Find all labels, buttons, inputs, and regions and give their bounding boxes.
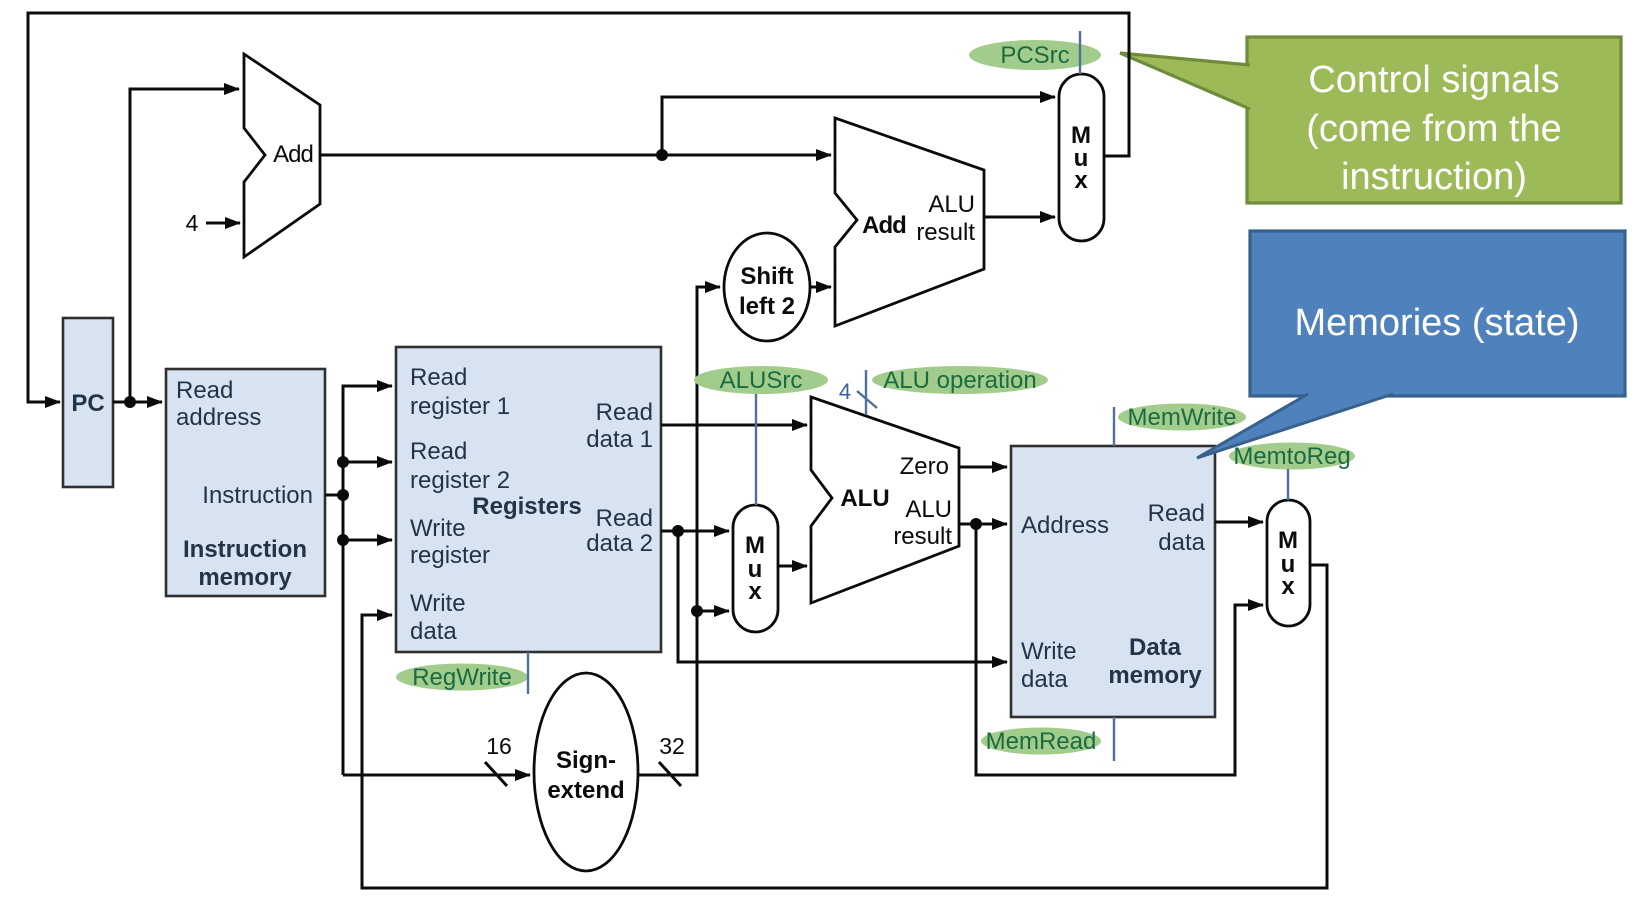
svg-text:x: x: [748, 578, 762, 605]
svg-text:4: 4: [839, 379, 851, 404]
svg-text:Data: Data: [1129, 634, 1182, 661]
svg-text:MemWrite: MemWrite: [1128, 404, 1237, 431]
svg-text:left 2: left 2: [739, 293, 795, 320]
wire: read data 2 down to data memory write data: [678, 531, 1007, 662]
control line ALUSrc to mux: [755, 394, 757, 505]
svg-text:Read: Read: [1148, 500, 1205, 527]
svg-text:Memories (state): Memories (state): [1294, 302, 1579, 344]
wire: instruction low 16 bits to sign extend: [343, 774, 530, 777]
node: PC output junction: [124, 396, 136, 408]
mux MemtoReg: [1267, 500, 1310, 626]
adder Add (branch target): [835, 118, 984, 326]
data memory box: [1011, 446, 1215, 717]
control line RegWrite: [527, 652, 529, 694]
node: ALU result junction: [970, 518, 982, 530]
svg-text:RegWrite: RegWrite: [412, 664, 512, 691]
wire: instruction to read register 2: [343, 461, 392, 464]
adder Add (PC+4): [244, 54, 320, 257]
svg-text:MemRead: MemRead: [986, 728, 1097, 755]
wire: sign extended value to ALUSrc mux input 1: [697, 610, 729, 613]
registers box: [396, 347, 661, 652]
svg-text:data: data: [1021, 666, 1068, 693]
svg-text:register 1: register 1: [410, 393, 510, 420]
svg-text:ALU: ALU: [905, 496, 952, 523]
svg-text:Add: Add: [862, 212, 906, 239]
svg-text:ALU operation: ALU operation: [883, 367, 1036, 394]
svg-text:memory: memory: [1108, 662, 1202, 689]
svg-text:M: M: [1278, 527, 1298, 554]
svg-text:ALU: ALU: [840, 485, 889, 512]
ALU U1: [811, 397, 959, 603]
mux ALUSrc: [733, 505, 778, 632]
svg-text:Write: Write: [410, 590, 466, 617]
svg-text:32: 32: [659, 733, 685, 759]
svg-text:result: result: [893, 523, 952, 550]
control label MemWrite: [1118, 404, 1246, 431]
wire: ALU zero to data memory: [959, 466, 1007, 469]
control label PCSrc: [969, 40, 1101, 70]
wire: PC up to Add input: [130, 89, 239, 402]
control label MemRead: [981, 728, 1101, 755]
svg-text:Read: Read: [410, 364, 467, 391]
wire: branch Add result to PCSrc mux input 1: [984, 216, 1055, 219]
svg-text:Instruction: Instruction: [202, 482, 313, 509]
svg-text:data 2: data 2: [586, 530, 653, 557]
instruction memory box: [166, 369, 325, 596]
wire: read data 1 to ALU: [661, 424, 807, 427]
wire: PC+4 up to PCSrc mux input 0: [662, 97, 1055, 155]
svg-text:Shift: Shift: [740, 263, 793, 290]
bus slash 16: [485, 762, 507, 786]
control label RegWrite: [396, 664, 528, 691]
svg-text:address: address: [176, 404, 261, 431]
control label ALU operation: [872, 366, 1048, 394]
wire: shift left 2 output to branch Add: [810, 286, 831, 289]
svg-text:PCSrc: PCSrc: [1000, 42, 1069, 69]
control line PCSrc to mux: [1079, 31, 1081, 74]
wire: sign extend output up to shift left 2: [638, 287, 720, 775]
svg-text:Write: Write: [410, 515, 466, 542]
svg-text:data: data: [410, 618, 457, 645]
svg-text:instruction): instruction): [1341, 156, 1527, 198]
node: instruction junctions: [337, 456, 349, 468]
svg-text:extend: extend: [547, 777, 624, 804]
node: sign extended junction: [691, 605, 703, 617]
wire: ALU result around data memory to MemtoReg mux input 1: [976, 524, 1263, 775]
wire: read data 2 to ALUSrc mux input 0: [661, 530, 729, 533]
svg-text:Add: Add: [273, 141, 313, 168]
svg-text:data 1: data 1: [586, 426, 653, 453]
svg-text:Control signals: Control signals: [1308, 59, 1559, 101]
control line ALU operation to ALU: [865, 370, 867, 415]
control line MemtoReg to mux: [1287, 469, 1289, 500]
svg-text:Sign-: Sign-: [556, 747, 616, 774]
svg-text:ALU: ALU: [928, 191, 975, 218]
shift left 2 unit: [724, 233, 810, 341]
wire: ALUSrc mux output to ALU: [778, 565, 807, 568]
svg-text:Address: Address: [1021, 512, 1109, 539]
wire: PCSrc mux output feedback loop to PC input: [28, 13, 1129, 402]
wire: instruction output: [325, 494, 343, 497]
wire: ALU result to data memory address: [959, 523, 1007, 526]
svg-text:register 2: register 2: [410, 467, 510, 494]
control label MemtoReg: [1229, 443, 1355, 470]
svg-text:4: 4: [186, 210, 199, 236]
wire: read data to MemtoReg mux input 0: [1215, 521, 1263, 524]
wire: instruction to write register: [343, 539, 392, 542]
wire: PC to instruction memory read address: [113, 401, 162, 404]
control label ALUSrc: [694, 366, 828, 394]
svg-text:result: result: [916, 219, 975, 246]
svg-text:(come from the: (come from the: [1306, 108, 1562, 150]
svg-text:Zero: Zero: [900, 453, 949, 480]
svg-text:Read: Read: [596, 399, 653, 426]
bus slash 32: [659, 762, 681, 786]
svg-text:16: 16: [486, 733, 512, 759]
svg-text:MemtoReg: MemtoReg: [1233, 443, 1350, 470]
wire: constant 4 into Add: [206, 222, 240, 225]
svg-text:x: x: [1074, 167, 1088, 194]
svg-text:Write: Write: [1021, 638, 1077, 665]
mux PCSrc: [1059, 74, 1104, 241]
svg-text:PC: PC: [71, 390, 104, 417]
callout: control signals (green): [1120, 37, 1621, 203]
svg-text:Registers: Registers: [472, 493, 581, 520]
svg-text:Instruction: Instruction: [183, 536, 307, 563]
control line MemRead: [1113, 717, 1115, 761]
svg-text:Read: Read: [176, 377, 233, 404]
svg-text:Read: Read: [596, 505, 653, 532]
wire: instruction vertical bus: [343, 386, 392, 775]
svg-text:x: x: [1281, 573, 1295, 600]
PC register box: [63, 318, 113, 487]
node: PC+4 junction: [656, 149, 668, 161]
control line MemWrite to data memory: [1113, 407, 1115, 446]
svg-text:M: M: [745, 532, 765, 559]
svg-text:ALUSrc: ALUSrc: [720, 367, 803, 394]
svg-text:data: data: [1158, 529, 1205, 556]
callout: memories (blue): [1197, 231, 1625, 458]
sign extend unit: [534, 673, 638, 871]
node: read data 2 junction: [672, 525, 684, 537]
svg-text:register: register: [410, 542, 490, 569]
wire: Add output (PC+4) to branch Add input: [321, 154, 831, 157]
svg-text:memory: memory: [198, 564, 292, 591]
svg-text:Read: Read: [410, 438, 467, 465]
wire: MemtoReg mux output write back to registers write data: [362, 565, 1327, 888]
